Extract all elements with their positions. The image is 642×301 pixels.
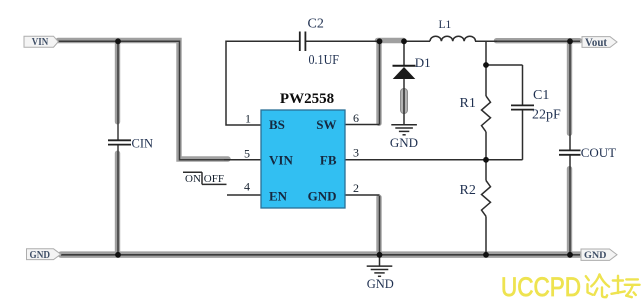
svg-text:1: 1: [245, 112, 251, 126]
svg-text:FB: FB: [320, 152, 337, 167]
svg-text:ON: ON: [185, 173, 201, 185]
svg-text:6: 6: [353, 111, 359, 125]
svg-text:C2: C2: [308, 17, 324, 32]
svg-text:UCCPD: UCCPD: [501, 272, 581, 301]
svg-text:COUT: COUT: [581, 145, 616, 160]
svg-text:GND: GND: [30, 250, 51, 261]
svg-text:C1: C1: [533, 88, 549, 103]
svg-text:2: 2: [353, 181, 359, 195]
svg-text:SW: SW: [316, 117, 336, 132]
svg-text:4: 4: [244, 179, 250, 193]
svg-text:OFF: OFF: [204, 173, 224, 185]
svg-text:L1: L1: [439, 19, 452, 31]
svg-text:GND: GND: [584, 251, 607, 261]
svg-text:VIN: VIN: [32, 36, 49, 48]
svg-text:3: 3: [353, 146, 359, 160]
svg-text:BS: BS: [269, 117, 285, 132]
svg-text:0.1UF: 0.1UF: [309, 52, 340, 67]
svg-text:CIN: CIN: [132, 137, 154, 151]
svg-text:VIN: VIN: [269, 152, 293, 167]
svg-text:GND: GND: [367, 277, 394, 291]
svg-text:D1: D1: [415, 55, 431, 70]
svg-text:Vout: Vout: [585, 35, 607, 49]
svg-text:GND: GND: [308, 189, 337, 204]
svg-text:22pF: 22pF: [532, 108, 561, 123]
svg-text:R1: R1: [460, 96, 476, 111]
svg-text:GND: GND: [390, 135, 418, 150]
svg-text:5: 5: [244, 147, 250, 161]
svg-text:EN: EN: [269, 189, 288, 204]
svg-text:R2: R2: [460, 183, 476, 198]
svg-text:PW2558: PW2558: [280, 91, 334, 107]
